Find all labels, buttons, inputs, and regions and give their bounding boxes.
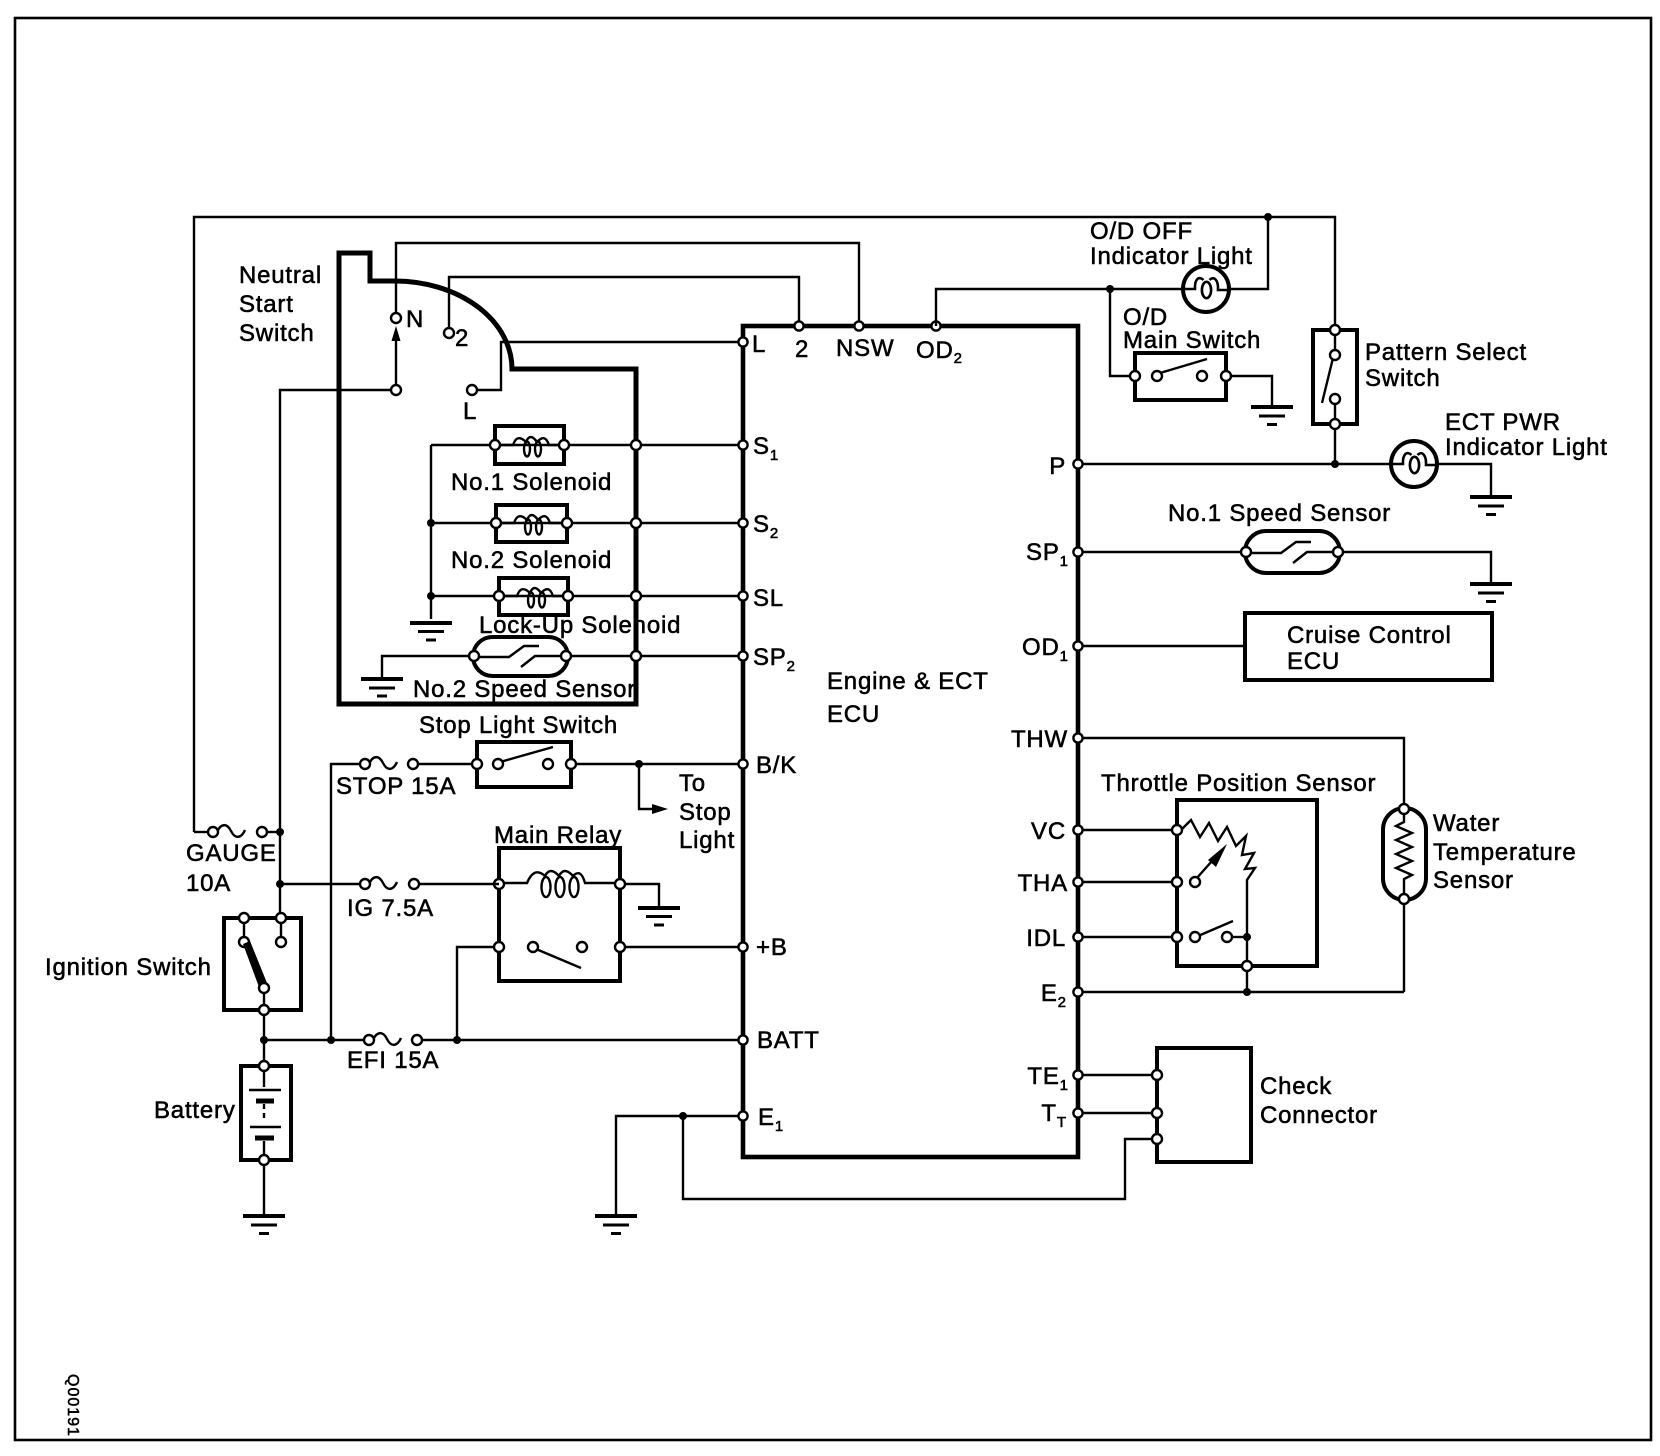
- stop light switch terminals: [472, 759, 482, 769]
- ground below battery: [243, 1216, 285, 1234]
- wire: L net (L terminal to ECU L pin): [477, 342, 739, 390]
- svg-text:NSW: NSW: [836, 335, 894, 362]
- svg-text:10A: 10A: [186, 870, 231, 897]
- wire: SP2 row right: [566, 655, 743, 657]
- wire: THW line: [1078, 738, 1404, 806]
- svg-text:Throttle Position Sensor: Throttle Position Sensor: [1101, 770, 1376, 797]
- wire: VC line: [1078, 829, 1177, 831]
- pin BATT: [738, 1035, 747, 1044]
- O/D main switch box: [1135, 353, 1226, 400]
- O/D main switch blade: [1160, 359, 1207, 373]
- label GAUGE 10A: [186, 840, 277, 897]
- junction dot IG branch: [276, 880, 284, 888]
- No.1 speed sensor reed contacts: [1250, 542, 1335, 563]
- svg-text:L: L: [463, 398, 477, 425]
- pin OD1: [1073, 641, 1082, 650]
- svg-text:O/D OFF: O/D OFF: [1090, 218, 1193, 245]
- main relay contact terminals: [494, 942, 504, 952]
- pin NSW: [854, 321, 863, 330]
- pin THA: [1073, 877, 1082, 886]
- No.2 solenoid coil: [501, 515, 561, 535]
- fuse EFI 15A: [364, 1033, 422, 1045]
- junction dot pattern select on P line: [1331, 460, 1339, 468]
- junction dot at O/D OFF light riser on top bus: [1264, 213, 1272, 221]
- terminal 2 of neutral start switch: [444, 328, 454, 338]
- No.2 speed sensor body: [473, 637, 568, 676]
- wire: SP2 left to ground: [382, 656, 474, 677]
- svg-text:GAUGE: GAUGE: [186, 840, 277, 867]
- wire: EFI fuse to BATT pin: [422, 1039, 743, 1041]
- svg-text:Indicator Light: Indicator Light: [1445, 434, 1608, 461]
- pin TT: [1073, 1108, 1082, 1117]
- svg-text:VC: VC: [1031, 818, 1066, 845]
- water temperature sensor body: [1383, 808, 1426, 900]
- svg-text:2: 2: [455, 325, 469, 352]
- label ECT PWR Indicator Light: [1445, 409, 1608, 461]
- svg-text:Q00191: Q00191: [64, 1374, 81, 1437]
- TPS idle contact blade: [1198, 921, 1233, 936]
- ground below No.2 speed sensor: [361, 679, 403, 696]
- pattern select switch box: [1313, 330, 1357, 424]
- ground at ECT PWR light: [1470, 497, 1512, 515]
- wire: lamp to ground: [1436, 464, 1491, 495]
- wire: THA line: [1078, 881, 1177, 883]
- throttle position sensor box: [1177, 800, 1317, 966]
- lock-up solenoid terminals: [494, 591, 504, 601]
- wire: relay contact to +B pin: [625, 946, 743, 948]
- wire: IG branch to fuse: [280, 883, 360, 885]
- label Neutral Start Switch: [239, 262, 322, 347]
- stop light switch box: [477, 742, 571, 787]
- pattern select switch terminals: [1330, 325, 1340, 335]
- label O/D OFF Indicator Light: [1090, 218, 1253, 270]
- wire: SP1 line: [1078, 551, 1248, 553]
- svg-text:2: 2: [795, 336, 809, 363]
- junction dot S2 common: [427, 519, 435, 527]
- No.2 solenoid box: [496, 505, 567, 542]
- wire: S2 row: [431, 522, 743, 524]
- ECT PWR indicator light bulb: [1391, 441, 1437, 487]
- svg-text:Check: Check: [1260, 1073, 1332, 1100]
- wire: OD2 to lamp row: [936, 289, 1184, 326]
- pin SP1: [1073, 547, 1082, 556]
- fuse GAUGE 10A: [208, 825, 267, 837]
- Engine & ECT ECU box: [743, 326, 1078, 1157]
- main relay coil: [504, 871, 615, 897]
- TPS bottom terminal: [1242, 961, 1252, 971]
- wire: O/D main switch to ground: [1231, 376, 1272, 405]
- wire: 2 net (2 terminal up, over to ECU 2 pin): [449, 277, 799, 328]
- battery terminals: [259, 1061, 269, 1071]
- ground at O/D main switch: [1251, 407, 1293, 425]
- TPS resistor: [1182, 820, 1255, 962]
- svg-text:Battery: Battery: [154, 1097, 236, 1124]
- label Check Connector: [1260, 1073, 1378, 1129]
- svg-text:SL: SL: [753, 585, 784, 612]
- svg-text:Engine & ECT: Engine & ECT: [827, 668, 989, 695]
- svg-text:Water: Water: [1433, 810, 1500, 837]
- svg-text:No.1 Speed Sensor: No.1 Speed Sensor: [1168, 500, 1391, 527]
- check connector terminals: [1152, 1070, 1162, 1080]
- pin B/K: [738, 759, 747, 768]
- No.1 speed sensor terminals: [1241, 547, 1251, 557]
- ignition switch blade: [243, 941, 267, 987]
- pin OD2: [931, 321, 940, 330]
- fuse STOP 15A: [360, 757, 418, 769]
- pin IDL: [1073, 932, 1082, 941]
- No.2 solenoid terminals: [491, 518, 501, 528]
- wire: IDL line: [1078, 936, 1177, 938]
- wire: fuse to stop light switch: [418, 763, 477, 765]
- arrowhead on N pole: [392, 326, 401, 341]
- label O/D Main Switch: [1123, 304, 1261, 354]
- junction dot TPS on E2 line: [1243, 988, 1251, 996]
- svg-text:Ignition Switch: Ignition Switch: [45, 954, 212, 981]
- No.1 solenoid coil: [500, 437, 559, 457]
- cruise control ECU box: [1245, 613, 1492, 680]
- svg-text:BATT: BATT: [757, 1027, 820, 1054]
- junction dot gauge/ignition riser: [276, 828, 284, 836]
- svg-text:No.1 Solenoid: No.1 Solenoid: [451, 469, 612, 496]
- pin SL: [738, 591, 747, 600]
- battery cells: [249, 1071, 281, 1155]
- svg-text:P: P: [1049, 453, 1066, 480]
- junction dot battery node: [260, 1036, 268, 1044]
- wire: IG fuse to relay coil: [419, 883, 499, 885]
- junction dot E1 return: [679, 1112, 687, 1120]
- svg-text:Switch: Switch: [1365, 365, 1441, 392]
- svg-text:IDL: IDL: [1026, 925, 1066, 952]
- TPS terminals: [1172, 825, 1182, 835]
- TPS wiper arrow: [1196, 844, 1227, 879]
- ground at main relay coil: [638, 908, 680, 925]
- ignition switch pole terminals: [259, 983, 269, 993]
- svg-text:ECT PWR: ECT PWR: [1445, 409, 1561, 436]
- ground at No.1 speed sensor: [1470, 584, 1512, 602]
- wire: pattern select to P line: [1334, 429, 1336, 464]
- svg-text:Switch: Switch: [239, 320, 315, 347]
- pin 2: [794, 321, 803, 330]
- svg-text:Neutral: Neutral: [239, 262, 322, 289]
- fuse IG 7.5A: [360, 877, 419, 889]
- svg-text:THW: THW: [1011, 726, 1068, 753]
- svg-text:Connector: Connector: [1260, 1102, 1378, 1129]
- junction dot O/D main switch tap: [1106, 285, 1114, 293]
- pin S2: [738, 518, 747, 527]
- No.1 solenoid box: [495, 426, 564, 464]
- ignition switch box: [224, 918, 301, 1010]
- wire: E1 return to check connector: [683, 1116, 1152, 1199]
- wire: TT line: [1078, 1112, 1157, 1114]
- svg-text:Start: Start: [239, 291, 294, 318]
- check connector box: [1157, 1048, 1251, 1162]
- pattern select switch blade: [1322, 358, 1333, 403]
- ignition switch terminals top: [239, 913, 249, 923]
- wire: E1 to ground: [616, 1116, 738, 1214]
- label Cruise Control ECU: [1287, 622, 1452, 675]
- pin TE1: [1073, 1070, 1082, 1079]
- ground below solenoid common: [410, 623, 452, 640]
- lock-up solenoid coil: [504, 588, 563, 608]
- svg-text:Temperature: Temperature: [1433, 839, 1577, 866]
- main relay box: [499, 848, 620, 981]
- pattern select switch stub wires: [1334, 333, 1336, 352]
- svg-text:Cruise Control: Cruise Control: [1287, 622, 1452, 649]
- wire: O/D main switch riser: [1110, 289, 1135, 376]
- wire: fuse to feed riser: [267, 831, 280, 833]
- No.2 speed sensor reed contacts: [478, 646, 563, 667]
- wire: TE1 line: [1078, 1074, 1157, 1076]
- junction circles on thick bus (S1,S2,SL rows): [631, 440, 641, 450]
- pin E1: [738, 1111, 747, 1120]
- label Water Temperature Sensor: [1433, 810, 1577, 894]
- svg-text:No.2 Solenoid: No.2 Solenoid: [451, 547, 612, 574]
- wire: N pole stem: [395, 341, 397, 385]
- pin THW: [1073, 733, 1082, 742]
- svg-text:L: L: [752, 331, 766, 358]
- svg-text:No.2 Speed Sensor: No.2 Speed Sensor: [413, 676, 636, 703]
- svg-text:To: To: [679, 770, 706, 797]
- svg-text:N: N: [406, 306, 424, 333]
- arrowhead to stop light: [652, 804, 668, 814]
- pin S1: [738, 440, 747, 449]
- svg-text:THA: THA: [1018, 870, 1068, 897]
- svg-text:Indicator Light: Indicator Light: [1090, 243, 1253, 270]
- wire: pole to ignition feed riser: [280, 390, 391, 917]
- junction dot idle/resistor: [1243, 933, 1251, 941]
- wire: TPS common to E2 line: [1246, 971, 1248, 992]
- ground below E1: [595, 1216, 637, 1234]
- wire: stop fuse feed riser: [331, 764, 360, 1040]
- svg-text:ECU: ECU: [827, 701, 880, 728]
- No.1 solenoid terminals: [490, 440, 500, 450]
- No.2 speed sensor terminals: [469, 651, 479, 661]
- lock-up solenoid box: [499, 578, 568, 615]
- wire: switch to B/K pin: [576, 763, 743, 765]
- wire: EFI line left segment: [264, 1039, 364, 1041]
- wire: ignition pole to EFI line: [263, 1015, 265, 1040]
- pin SP2: [738, 651, 747, 660]
- junction dot stop-light tap: [635, 760, 643, 768]
- wire: P line: [1078, 463, 1392, 465]
- wire: S1 row: [431, 444, 743, 446]
- wire: SL row: [431, 595, 743, 597]
- wire: lamp to top bus riser: [1228, 217, 1268, 289]
- label Pattern Select Switch: [1365, 339, 1527, 392]
- svg-text:+B: +B: [756, 934, 788, 961]
- O/D OFF indicator light bulb: [1183, 266, 1229, 312]
- wire: sensor bottom to E2 line: [1403, 904, 1405, 992]
- svg-text:Light: Light: [679, 827, 735, 854]
- pole terminal of neutral start switch: [391, 385, 401, 395]
- wire: battery to ground: [263, 1165, 265, 1214]
- pin E2: [1073, 987, 1082, 996]
- junction dot relay feed on EFI line: [453, 1036, 461, 1044]
- svg-text:Main Switch: Main Switch: [1123, 327, 1261, 354]
- svg-text:Lock-Up Solenoid: Lock-Up Solenoid: [479, 612, 681, 639]
- wire: to stop light stub: [639, 764, 652, 809]
- wire: gauge feed corner: [194, 831, 208, 833]
- pin VC: [1073, 825, 1082, 834]
- svg-text:Pattern Select: Pattern Select: [1365, 339, 1527, 366]
- TPS idle contact to resistor foot: [1232, 936, 1247, 938]
- wire: battery top lead: [263, 1040, 265, 1062]
- junction dot stop riser on EFI line: [327, 1036, 335, 1044]
- terminal L of neutral start switch: [467, 385, 477, 395]
- stop light switch blade: [500, 747, 553, 762]
- svg-text:Stop Light Switch: Stop Light Switch: [419, 712, 618, 739]
- junction circle on thick bus SP2 row: [631, 651, 641, 661]
- terminal N of neutral start switch: [391, 313, 401, 323]
- label Engine & ECT ECU: [827, 668, 989, 728]
- svg-text:STOP 15A: STOP 15A: [336, 773, 456, 800]
- svg-text:IG 7.5A: IG 7.5A: [347, 895, 434, 922]
- svg-text:Sensor: Sensor: [1433, 867, 1514, 894]
- wire: OD1 line: [1078, 645, 1245, 647]
- wire: coil to ground: [625, 884, 659, 906]
- pin L: [738, 337, 747, 346]
- svg-text:Main Relay: Main Relay: [494, 822, 622, 849]
- svg-text:ECU: ECU: [1287, 648, 1340, 675]
- No.1 speed sensor body: [1245, 531, 1340, 573]
- neutral start switch thick body outline: [339, 253, 636, 704]
- junction dot SL common: [427, 592, 435, 600]
- svg-text:B/K: B/K: [756, 752, 797, 779]
- main relay contact blade: [536, 949, 581, 968]
- battery box: [241, 1066, 291, 1160]
- wire: top bus y=217 from left riser to pattern-select riser: [194, 217, 1335, 832]
- water temperature sensor resistor: [1396, 812, 1412, 897]
- svg-text:Stop: Stop: [679, 799, 732, 826]
- wire: solenoid common left riser: [430, 445, 432, 619]
- water temperature sensor terminals: [1399, 804, 1409, 814]
- pin P: [1073, 459, 1082, 468]
- wire: NSW net (N terminal up, over to ECU NSW pin): [396, 243, 859, 326]
- wire: relay contact left to EFI line: [457, 947, 494, 1040]
- ignition switch inner contacts: [243, 923, 245, 937]
- label To Stop Light: [679, 770, 735, 854]
- wire: sensor to ground: [1343, 552, 1491, 582]
- O/D main switch terminals: [1130, 371, 1140, 381]
- main relay coil terminals: [494, 879, 504, 889]
- wire: E2 line: [1078, 991, 1404, 993]
- pin +B: [738, 942, 747, 951]
- svg-text:EFI 15A: EFI 15A: [347, 1047, 439, 1074]
